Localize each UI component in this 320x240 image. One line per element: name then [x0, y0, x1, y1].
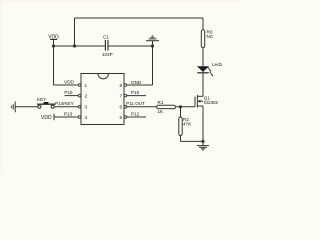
svg-text:R1: R1 — [158, 100, 164, 105]
pin 1 circle — [78, 84, 81, 87]
node R2 junction — [179, 105, 182, 108]
svg-text:P11 OUT: P11 OUT — [126, 101, 145, 106]
wire switch to pin3 P14/KEY — [54, 101, 78, 107]
svg-text:C1: C1 — [103, 35, 109, 40]
svg-text:P10: P10 — [131, 90, 140, 95]
resistor R1 — [157, 100, 176, 114]
node VDD-stub junction — [52, 44, 55, 47]
wire C1 right to gnd — [108, 45, 153, 47]
wire pin7 P10 stub — [127, 90, 146, 96]
wire VDD branch down to pin1 — [53, 46, 55, 85]
wire R1 to gate — [176, 106, 196, 108]
wire right rail drop — [202, 18, 204, 30]
ground (top, near C1) — [146, 36, 159, 46]
wire top rail riser — [74, 18, 76, 46]
capacitor C1 — [102, 35, 113, 58]
svg-text:8: 8 — [119, 83, 122, 88]
pin 5 circle — [124, 116, 127, 119]
wire R2 bottom drop — [180, 136, 182, 142]
node gnd junction — [151, 44, 154, 47]
svg-text:7: 7 — [119, 94, 122, 99]
wire pin8 GND horizontal — [127, 84, 153, 86]
svg-text:6: 6 — [119, 105, 122, 110]
wire pin4 P13 — [54, 111, 78, 117]
wire gnd to switch — [15, 106, 38, 108]
svg-text:VDD: VDD — [64, 79, 74, 84]
wire bottom horizontal to gnd junction — [181, 140, 204, 142]
pin 7 circle — [124, 94, 127, 97]
svg-text:3: 3 — [85, 105, 88, 110]
ground (bottom-right) — [197, 141, 209, 150]
svg-text:P13: P13 — [64, 111, 73, 116]
svg-text:104P: 104P — [102, 52, 113, 57]
svg-text:P15: P15 — [64, 90, 73, 95]
wire VDD rail horizontal — [54, 45, 105, 47]
power VDD (pin 4) — [41, 114, 54, 121]
wire pin1 with VDD net label — [54, 79, 79, 85]
LED Led1 — [197, 62, 223, 76]
svg-text:4: 4 — [85, 115, 88, 120]
pin 6 circle — [124, 106, 127, 109]
svg-text:NC: NC — [207, 34, 214, 39]
pin 8 circle — [124, 84, 127, 87]
wire R0 to LED — [202, 48, 204, 67]
svg-text:VDD: VDD — [41, 115, 52, 121]
svg-text:5: 5 — [119, 115, 122, 120]
svg-text:Led1: Led1 — [212, 62, 223, 67]
wire gnd vertical to pin8 row — [152, 46, 154, 85]
pin 4 circle — [78, 116, 81, 119]
node top-rail junction — [73, 44, 76, 47]
svg-text:SI2302: SI2302 — [204, 100, 219, 105]
transistor Q1 (SI2302 NMOS) — [195, 95, 219, 108]
switch KEY (pushbutton) — [37, 97, 55, 108]
wire pin5 P12 stub — [127, 111, 146, 117]
power VDD (top-left) — [48, 35, 59, 46]
svg-text:P14/KEY: P14/KEY — [55, 101, 74, 106]
wire LED to drain — [202, 73, 204, 96]
svg-text:47K: 47K — [183, 122, 192, 127]
svg-text:P12: P12 — [131, 111, 140, 116]
svg-text:1K: 1K — [158, 109, 165, 114]
ground (left, rotated) — [11, 102, 15, 113]
svg-text:GND: GND — [131, 80, 142, 85]
wire pin6 P11 OUT — [126, 101, 157, 107]
svg-text:2: 2 — [85, 94, 88, 99]
pin 2 circle — [78, 94, 81, 97]
resistor R2 — [179, 107, 192, 136]
wire pin2 P15 stub — [64, 90, 78, 96]
resistor R0 — [201, 30, 214, 48]
pin 3 circle — [78, 106, 81, 109]
IC U1 (8-pin MCU body with pin numbers 1-8) — [81, 74, 124, 125]
svg-text:1: 1 — [85, 83, 88, 88]
svg-text:KEY: KEY — [37, 97, 46, 102]
wire top rail — [75, 17, 204, 19]
node source/gnd junction — [201, 140, 204, 143]
wire source down — [202, 106, 204, 141]
